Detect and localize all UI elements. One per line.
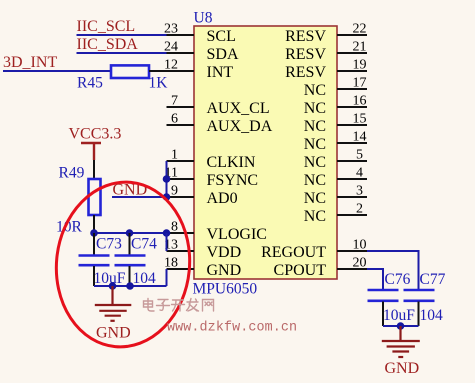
svg-text:4: 4 (356, 166, 363, 181)
wire 3D_INT right segment (149, 70, 167, 72)
svg-text:CPOUT: CPOUT (274, 262, 327, 279)
wire tie CLKIN-FSYNC-AD0 (166, 161, 168, 197)
svg-text:GND: GND (207, 262, 242, 279)
resistor R49 (89, 179, 101, 215)
svg-text:AUX_CL: AUX_CL (207, 100, 270, 117)
pin 19 RESV (285, 58, 367, 81)
svg-text:14: 14 (353, 130, 367, 145)
svg-text:REGOUT: REGOUT (261, 244, 326, 261)
pin 23 SCL (164, 22, 236, 45)
svg-text:CLKIN: CLKIN (207, 154, 256, 171)
svg-text:RESV: RESV (285, 28, 326, 45)
svg-text:R45: R45 (77, 75, 103, 92)
op-amp U1 : IC body U8 MPU6050 (194, 26, 337, 279)
svg-text:15: 15 (353, 112, 367, 127)
svg-text:7: 7 (171, 94, 178, 109)
svg-text:1: 1 (171, 148, 178, 163)
ground symbol left (95, 286, 132, 321)
watermark chinese 电子开发网 (drawn glyphs) (144, 299, 214, 312)
wire IIC_SCL (77, 34, 167, 36)
pin 11 FSYNC (165, 166, 259, 189)
capacitor C77 (404, 290, 435, 326)
capacitor C74 (115, 233, 146, 286)
wire GND label to AD0 pin (112, 196, 167, 198)
pin 16 NC (304, 94, 367, 117)
wire IIC_SDA (77, 52, 167, 54)
svg-text:SDA: SDA (207, 46, 239, 63)
svg-text:3: 3 (356, 184, 363, 199)
pin 2 NC (304, 202, 367, 225)
capacitor C73 (79, 233, 110, 286)
svg-text:22: 22 (353, 22, 367, 37)
svg-text:RESV: RESV (285, 64, 326, 81)
wire VLOGIC rail (94, 232, 167, 234)
svg-text:C73: C73 (96, 236, 122, 253)
wire pin18 down (166, 269, 168, 286)
pin 14 NC (304, 130, 367, 153)
pin 10 REGOUT (261, 238, 367, 261)
pin 1 CLKIN (167, 148, 256, 171)
svg-text:AD0: AD0 (207, 190, 238, 207)
junction AD0 (163, 193, 171, 201)
svg-text:FSYNC: FSYNC (207, 172, 259, 189)
pin 3 NC (304, 184, 367, 207)
pin 4 NC (304, 166, 367, 189)
svg-text:IIC_SCL: IIC_SCL (77, 18, 136, 35)
svg-text:NC: NC (304, 82, 326, 99)
wire C76-C77 bottom (383, 325, 419, 327)
svg-text:C77: C77 (420, 271, 446, 288)
junction VLOGIC/VDD tie (163, 229, 171, 237)
pin 13 VDD (164, 238, 241, 261)
pin 22 RESV (285, 22, 367, 45)
wire GND rail bottom (94, 285, 167, 287)
pin 17 NC (304, 76, 367, 99)
junction C74 bottom (126, 282, 134, 290)
pin 9 AD0 (167, 184, 238, 207)
svg-text:NC: NC (304, 118, 326, 135)
svg-text:2: 2 (356, 202, 363, 217)
wire R49 to node (93, 215, 95, 233)
svg-text:IIC_SDA: IIC_SDA (77, 36, 139, 53)
svg-text:NC: NC (304, 154, 326, 171)
svg-text:VLOGIC: VLOGIC (207, 226, 267, 243)
annotation red ellipse (49, 176, 197, 353)
svg-text:U8: U8 (194, 10, 213, 27)
junction C74 top (126, 229, 134, 237)
junction FSYNC (163, 175, 171, 183)
svg-text:6: 6 (171, 112, 178, 127)
svg-text:C74: C74 (131, 236, 157, 253)
svg-text:RESV: RESV (285, 46, 326, 63)
svg-text:10: 10 (353, 238, 367, 253)
pin 15 NC (304, 112, 367, 135)
svg-text:NC: NC (304, 208, 326, 225)
svg-text:9: 9 (171, 184, 178, 199)
wire VCC to R49 (93, 160, 95, 179)
ground symbol right (382, 326, 420, 357)
svg-text:MPU6050: MPU6050 (193, 281, 258, 298)
svg-text:20: 20 (353, 256, 367, 271)
svg-text:VCC3.3: VCC3.3 (69, 126, 122, 143)
wire VLOGIC to VDD (166, 233, 168, 251)
svg-text:5: 5 (356, 148, 363, 163)
svg-text:INT: INT (207, 64, 234, 81)
pin 7 AUX_CL (167, 94, 270, 117)
svg-text:3D_INT: 3D_INT (3, 54, 57, 71)
wire CPOUT (367, 269, 383, 289)
svg-text:104: 104 (420, 307, 444, 324)
svg-text:R49: R49 (59, 165, 85, 182)
pin 6 AUX_DA (167, 112, 273, 135)
svg-text:17: 17 (353, 76, 367, 91)
pin 12 INT (164, 58, 233, 81)
svg-text:1K: 1K (149, 75, 169, 92)
pin 5 NC (304, 148, 367, 171)
svg-text:VDD: VDD (207, 244, 242, 261)
junction R49/C73 (90, 229, 98, 237)
svg-text:NC: NC (304, 100, 326, 117)
svg-text:GND: GND (385, 360, 420, 377)
pin 8 VLOGIC (167, 220, 267, 243)
wire REGOUT (367, 251, 419, 289)
resistor R45 (111, 65, 149, 78)
pin 24 SDA (164, 40, 239, 63)
svg-text:SCL: SCL (207, 28, 236, 45)
junction GND stem (109, 282, 117, 290)
wire 3D_INT left segment (3, 70, 111, 72)
svg-text:16: 16 (353, 94, 367, 109)
svg-text:www.dzkfw.com.cn: www.dzkfw.com.cn (167, 321, 297, 336)
svg-text:NC: NC (304, 136, 326, 153)
capacitor C76 (368, 290, 399, 326)
power VCC3.3 (69, 126, 122, 161)
pin 21 RESV (285, 40, 367, 63)
pin 20 CPOUT (274, 256, 367, 279)
svg-text:AUX_DA: AUX_DA (207, 118, 273, 135)
svg-text:C76: C76 (385, 271, 411, 288)
pin 18 GND (164, 256, 241, 279)
svg-text:21: 21 (353, 40, 367, 55)
junction GND right (397, 322, 405, 330)
svg-text:104: 104 (133, 270, 157, 287)
svg-text:18: 18 (164, 256, 178, 271)
svg-text:NC: NC (304, 172, 326, 189)
svg-text:GND: GND (96, 325, 131, 342)
svg-text:19: 19 (353, 58, 367, 73)
svg-text:10uF: 10uF (383, 307, 415, 324)
svg-text:8: 8 (171, 220, 178, 235)
svg-text:NC: NC (304, 190, 326, 207)
